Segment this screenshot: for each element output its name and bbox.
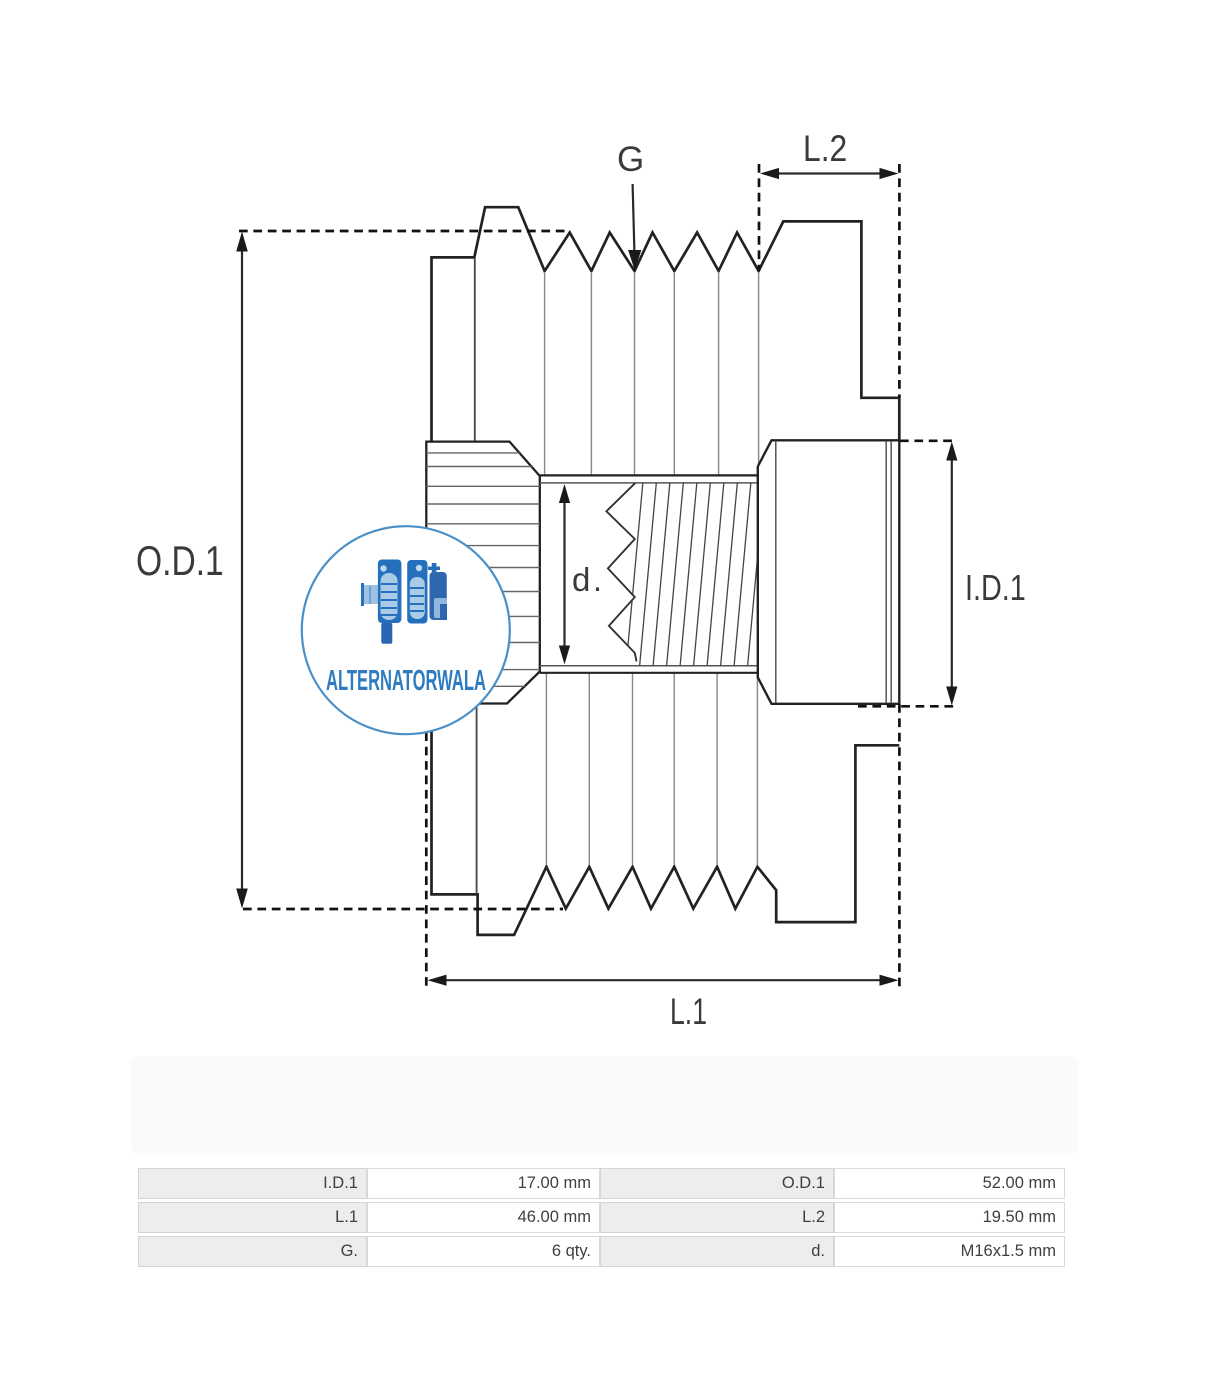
svg-text:L.2: L.2 xyxy=(803,129,847,170)
thread profile zigzag xyxy=(606,483,636,662)
groove valley line v1 bottom xyxy=(545,673,547,865)
hub chamfer line right b xyxy=(890,441,892,703)
faint background band xyxy=(131,1056,1078,1153)
groove valley line v6 bottom xyxy=(756,675,758,865)
spec table row 2 xyxy=(138,1202,367,1233)
hub chamfer line right a xyxy=(885,441,887,703)
I.D.1 dimension arrow xyxy=(951,458,953,688)
dashed extension: I.D.1 bottom xyxy=(858,705,956,708)
pulley outer profile xyxy=(432,207,900,935)
svg-text:G: G xyxy=(617,140,644,179)
sleeve top outer line xyxy=(540,474,758,476)
svg-text:I.D.1: I.D.1 xyxy=(965,567,1026,608)
svg-text:d.: d. xyxy=(572,561,605,598)
groove valley line v5 bottom xyxy=(716,673,718,865)
sleeve bottom inner line xyxy=(540,665,758,667)
L.2 dimension arrow xyxy=(776,172,883,174)
G leader arrow xyxy=(633,184,635,252)
inner wall line lower xyxy=(476,704,478,895)
watermark logo alternator icon xyxy=(361,560,447,644)
dashed extension: O.D. bottom xyxy=(243,908,563,911)
thread hatch xyxy=(626,481,778,667)
L.1 dimension arrow xyxy=(444,979,882,981)
hub boss outline xyxy=(758,440,900,704)
groove valley line v1 top xyxy=(544,272,546,475)
svg-text:O.D.1: O.D.1 xyxy=(136,539,224,585)
inner wall line upper xyxy=(474,258,476,442)
O.D.1 dimension arrow xyxy=(241,249,243,891)
d. dimension arrow xyxy=(563,500,565,649)
dashed extension: L.1 left xyxy=(425,704,428,988)
spec table row 3 xyxy=(138,1236,367,1267)
dashed extension: O.D. top xyxy=(239,230,570,233)
groove valley line v5 top xyxy=(718,272,720,475)
groove valley line v4 top xyxy=(673,272,675,475)
watermark circle xyxy=(302,526,510,734)
spec table row 1 xyxy=(138,1168,367,1199)
dashed extension: L.2 left xyxy=(758,164,761,271)
groove valley line v3 top xyxy=(634,272,636,475)
groove valley line v4 bottom xyxy=(673,673,675,865)
dashed extension: L.1 right lower xyxy=(898,704,901,987)
dashed extension: L.2/L.1 right upper xyxy=(898,164,901,398)
groove valley line v2 top xyxy=(590,272,592,475)
svg-text:L.1: L.1 xyxy=(670,991,707,1032)
groove valley line v3 bottom xyxy=(632,673,634,865)
sleeve bottom outer line xyxy=(540,672,758,674)
serrated clutch block xyxy=(424,442,541,704)
hub chamfer inner line left xyxy=(775,441,777,703)
groove valley line v2 bottom xyxy=(588,673,590,865)
groove valley line v6 top xyxy=(758,272,760,470)
dashed extension: I.D.1 top xyxy=(900,439,956,442)
sleeve top inner line xyxy=(540,482,758,484)
svg-text:ALTERNATORWALA: ALTERNATORWALA xyxy=(326,665,486,697)
